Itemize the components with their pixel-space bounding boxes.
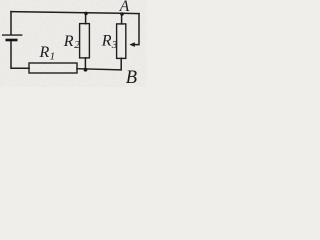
svg-text:1: 1 bbox=[50, 51, 56, 63]
svg-text:B: B bbox=[126, 68, 137, 87]
svg-text:R: R bbox=[101, 33, 112, 50]
svg-text:2: 2 bbox=[74, 39, 80, 51]
svg-text:3: 3 bbox=[111, 39, 118, 51]
svg-text:R: R bbox=[39, 44, 50, 61]
svg-text:R: R bbox=[63, 33, 74, 50]
svg-text:A: A bbox=[119, 0, 130, 15]
